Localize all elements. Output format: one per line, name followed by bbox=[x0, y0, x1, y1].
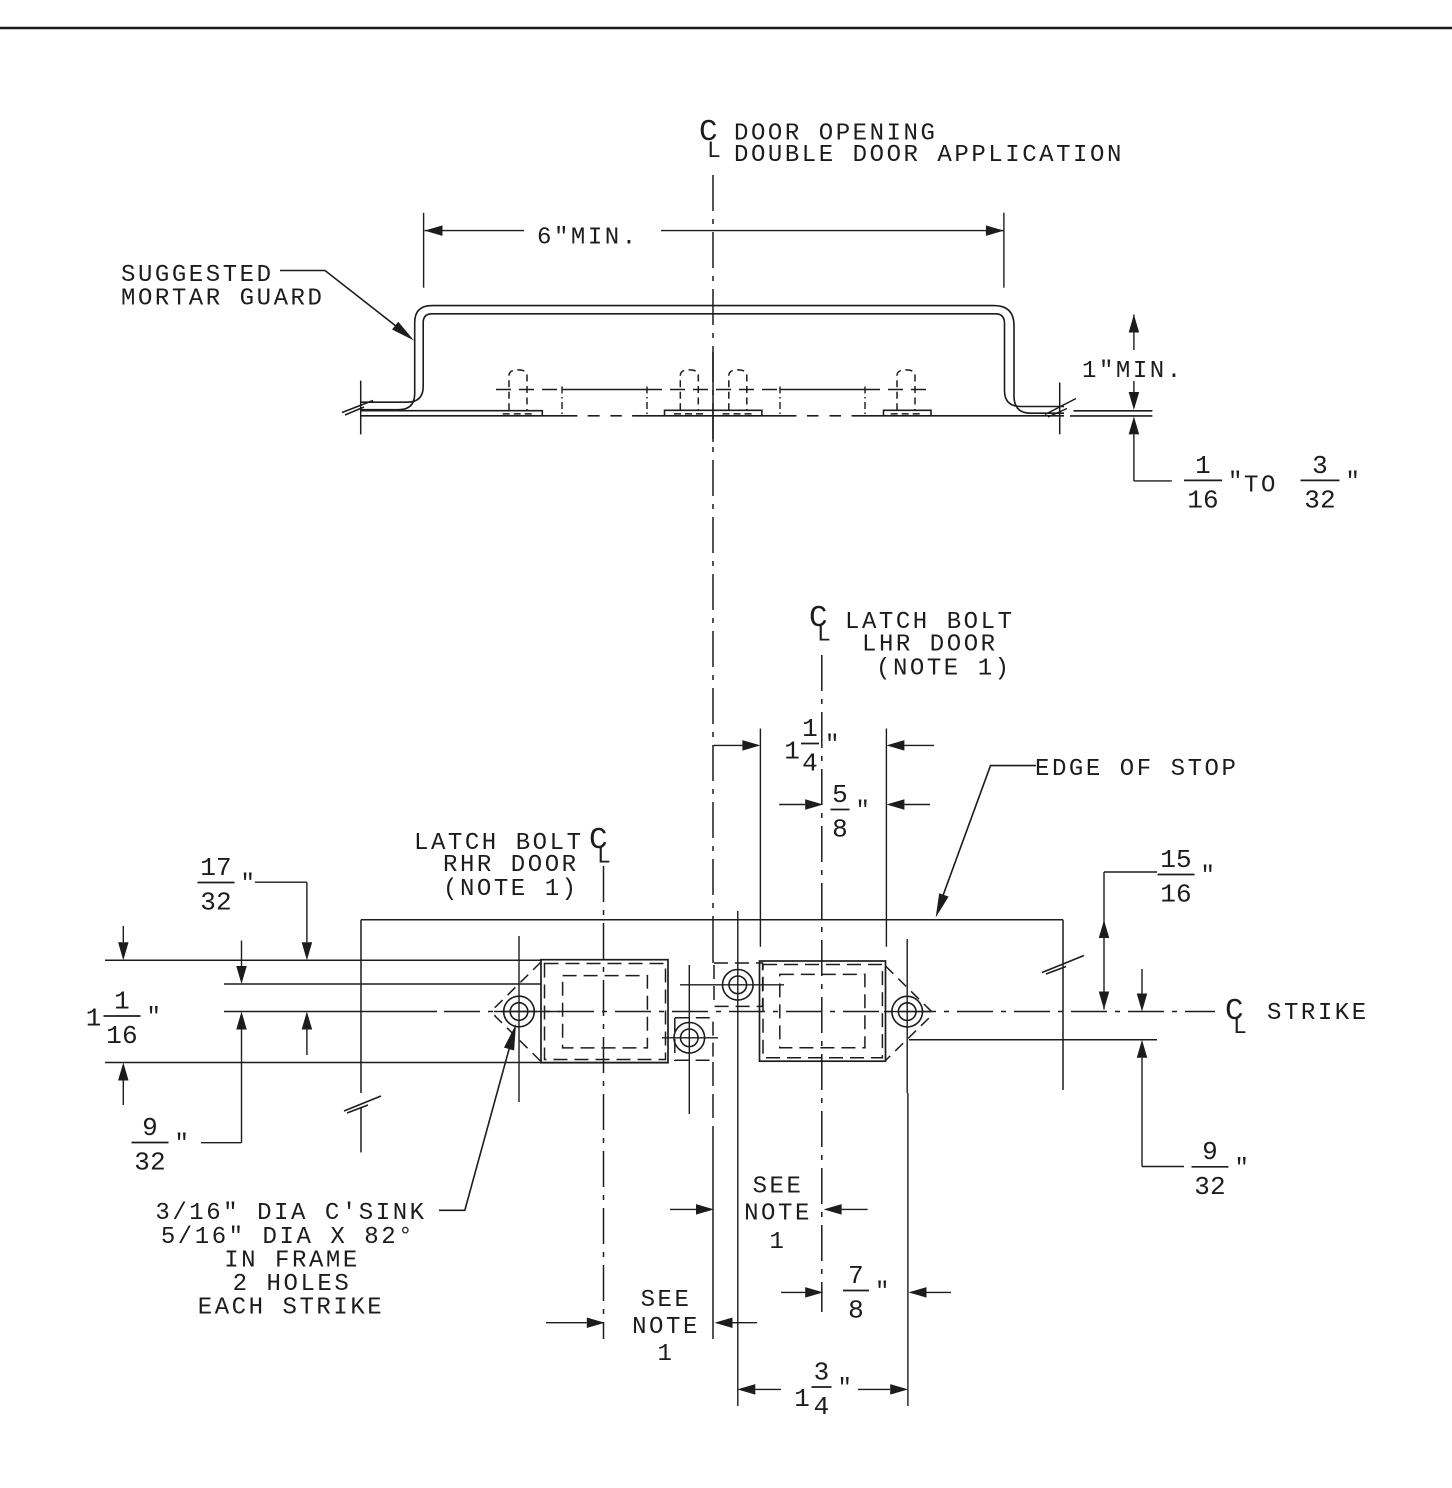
latch hole edge centerline mark 3 bbox=[779, 387, 781, 418]
svg-text:": " bbox=[175, 1131, 189, 1158]
screw hole lower-center (plan) with crosshair bbox=[662, 965, 718, 1114]
svg-text:32: 32 bbox=[200, 888, 232, 918]
svg-text:5: 5 bbox=[832, 780, 848, 810]
svg-text:": " bbox=[147, 1005, 161, 1032]
dimension 6 inch MIN line and arrows bbox=[425, 230, 525, 232]
door opening centerline (vertical dash-dot) bbox=[712, 175, 714, 920]
latch box LHR outer (solid) bbox=[760, 961, 886, 1061]
svg-text:4: 4 bbox=[814, 1392, 830, 1422]
svg-text:": " bbox=[875, 1279, 889, 1306]
dimension 1 inch MIN lower part bbox=[1133, 381, 1135, 392]
dimension 1-1/4 extension lines bbox=[759, 729, 761, 947]
frame right edge with break bbox=[1062, 920, 1064, 1090]
dimension 6 inch MIN extension line left bbox=[423, 213, 425, 288]
svg-text:(NOTE 1): (NOTE 1) bbox=[443, 876, 579, 903]
svg-text:SEE: SEE bbox=[641, 1287, 692, 1314]
drawing sheet border line bbox=[0, 27, 1452, 30]
svg-text:9: 9 bbox=[1202, 1137, 1218, 1167]
svg-text:4: 4 bbox=[802, 749, 818, 779]
screw hole left (plan) with crosshair bbox=[494, 936, 560, 1102]
svg-text:8: 8 bbox=[848, 1296, 864, 1326]
svg-text:3/16" DIA C'SINK: 3/16" DIA C'SINK bbox=[155, 1200, 426, 1227]
strike lip chamfer (dashed) around left screw bbox=[495, 962, 541, 1062]
dimension SEE NOTE 1 (RHR latch CL to door CL) arrows bbox=[546, 1322, 587, 1324]
mortar guard outer profile bbox=[361, 306, 1064, 414]
svg-text:16: 16 bbox=[106, 1021, 138, 1051]
latch bolt LHR centerline (vertical) bbox=[821, 655, 823, 1312]
svg-text:NOTE: NOTE bbox=[632, 1314, 700, 1341]
strike plate top edge visible through hole (right) bbox=[780, 389, 865, 391]
dimension 1-3/4 line and arrows bbox=[737, 1384, 755, 1395]
svg-text:17: 17 bbox=[200, 853, 232, 883]
latch hole edge centerline mark 1 bbox=[561, 387, 563, 418]
latch bolt RHR centerline (vertical) bbox=[603, 866, 605, 1339]
break line left (section) bbox=[360, 381, 362, 435]
svg-text:LHR DOOR: LHR DOOR bbox=[862, 632, 998, 659]
svg-text:EDGE OF STOP: EDGE OF STOP bbox=[1035, 756, 1238, 783]
strike boss under center screws (section) bbox=[665, 410, 762, 416]
edge of stop line bbox=[361, 919, 1063, 921]
leader to edge of stop bbox=[941, 766, 1036, 901]
svg-text:1: 1 bbox=[114, 986, 130, 1016]
svg-text:": " bbox=[856, 798, 870, 825]
svg-text:": " bbox=[825, 732, 839, 759]
svg-text:STRIKE: STRIKE bbox=[1267, 1000, 1369, 1027]
screw hole upper-center (plan) with crosshair bbox=[680, 911, 784, 1114]
svg-text:NOTE: NOTE bbox=[744, 1201, 812, 1228]
svg-text:": " bbox=[1201, 863, 1215, 890]
svg-text:32: 32 bbox=[1304, 486, 1336, 516]
svg-text:3: 3 bbox=[1312, 451, 1328, 481]
svg-text:L: L bbox=[707, 138, 721, 164]
svg-text:3: 3 bbox=[814, 1357, 830, 1387]
dimension 5/8 arrows bbox=[779, 804, 805, 806]
break line right (section) bbox=[1059, 383, 1061, 435]
svg-text:": " bbox=[1235, 1155, 1249, 1182]
strike lip bend line upper-left bbox=[224, 983, 541, 985]
strike boss under right screw (section) bbox=[884, 410, 932, 416]
dimension 15/16 line and arrows bbox=[1103, 920, 1105, 1010]
dimension 17/32 leader and arrows bbox=[255, 881, 307, 883]
dimension 1-1/16 line and arrows bbox=[122, 926, 124, 942]
screw (section) far left, hidden bbox=[503, 370, 534, 414]
strike lip chamfer (dashed) around right screw bbox=[886, 966, 932, 1061]
latch box LHR inner (dashed) bbox=[780, 974, 865, 1047]
strike plate top edge hidden seg2 bbox=[647, 389, 780, 391]
svg-text:": " bbox=[1346, 469, 1360, 496]
svg-text:L: L bbox=[597, 844, 611, 870]
dimension 7/8 arrows bbox=[781, 1291, 805, 1293]
svg-text:1: 1 bbox=[86, 1003, 102, 1033]
svg-text:(NOTE 1): (NOTE 1) bbox=[876, 656, 1012, 683]
frame left edge with break bbox=[360, 920, 362, 1093]
latch box RHR mid (dashed) bbox=[545, 964, 666, 1060]
dimension 1-1/4 arrows bbox=[713, 744, 742, 746]
strike lip bend line lower-right bbox=[909, 1039, 1157, 1041]
dimension SEE NOTE 1 (door CL to LHR latch CL) arrows bbox=[670, 1208, 696, 1210]
svg-text:TO: TO bbox=[1244, 473, 1278, 500]
svg-text:6"MIN.: 6"MIN. bbox=[537, 225, 639, 252]
svg-text:RHR DOOR: RHR DOOR bbox=[443, 852, 579, 879]
svg-text:16: 16 bbox=[1187, 486, 1219, 516]
svg-text:16: 16 bbox=[1160, 880, 1192, 910]
svg-text:1: 1 bbox=[658, 1341, 675, 1368]
svg-text:7: 7 bbox=[848, 1261, 864, 1291]
dimension 15/16 leader bbox=[1103, 872, 1105, 920]
svg-text:32: 32 bbox=[1194, 1172, 1226, 1202]
latch box RHR outer (solid) bbox=[541, 960, 668, 1063]
strike bottom edge bbox=[105, 1062, 668, 1064]
latch box RHR inner (dashed) bbox=[563, 976, 648, 1048]
extension line right screw (vertical) bbox=[907, 1093, 909, 1406]
strike plate top edge (section) left run bbox=[361, 411, 542, 416]
svg-text:SEE: SEE bbox=[753, 1173, 804, 1200]
latch hole edge centerline mark 4 bbox=[864, 387, 866, 418]
screw (section) center-left, hidden bbox=[674, 370, 705, 414]
strike top edge (line) bbox=[105, 959, 541, 961]
leader from countersink note to left screw bbox=[439, 1042, 511, 1210]
svg-text:1: 1 bbox=[802, 714, 818, 744]
svg-text:": " bbox=[241, 871, 255, 898]
dimension 6 inch MIN extension line right bbox=[1003, 213, 1005, 288]
dimension 9/32-right line and arrows bbox=[1141, 969, 1143, 994]
svg-text:1"MIN.: 1"MIN. bbox=[1082, 358, 1184, 385]
latch hole edge centerline mark 2 bbox=[646, 387, 648, 418]
dimension 1 inch MIN upper part bbox=[1133, 315, 1135, 351]
svg-text:1: 1 bbox=[794, 1384, 810, 1414]
svg-text:9: 9 bbox=[142, 1113, 158, 1143]
strike centerline solid extension bbox=[224, 1011, 437, 1013]
strike plate top edge hidden seg bbox=[496, 389, 562, 391]
dimension 9/32-left line and arrows bbox=[241, 941, 243, 967]
svg-text:1: 1 bbox=[1195, 451, 1211, 481]
svg-text:": " bbox=[1228, 469, 1242, 496]
svg-text:EACH STRIKE: EACH STRIKE bbox=[198, 1295, 384, 1322]
extension line upper-center screw (vertical) bbox=[737, 1114, 739, 1406]
svg-text:1: 1 bbox=[770, 1229, 787, 1256]
strike plate bottom edge (section) bbox=[361, 415, 577, 417]
keeper box (dashed) around lower center screw bbox=[675, 1018, 713, 1060]
svg-text:DOUBLE DOOR APPLICATION: DOUBLE DOOR APPLICATION bbox=[734, 142, 1124, 169]
svg-text:1: 1 bbox=[784, 737, 800, 767]
svg-text:MORTAR GUARD: MORTAR GUARD bbox=[121, 286, 324, 313]
latch box LHR mid (dashed) bbox=[763, 965, 882, 1058]
screw (section) far right, hidden bbox=[891, 370, 922, 414]
svg-text:8: 8 bbox=[832, 815, 848, 845]
svg-text:32: 32 bbox=[134, 1148, 166, 1178]
strike plate top edge hidden seg3 bbox=[865, 389, 931, 391]
svg-text:15: 15 bbox=[1160, 845, 1192, 875]
svg-text:L: L bbox=[817, 622, 831, 648]
dimension 1/16 to 3/32 arrow bbox=[1129, 416, 1140, 434]
strike plate top edge visible through hole (left) bbox=[562, 389, 647, 391]
svg-text:L: L bbox=[1233, 1014, 1247, 1040]
screw hole right (plan) with crosshair bbox=[884, 939, 932, 1093]
frame face lines beyond break (right) bbox=[1074, 410, 1153, 412]
leader to mortar guard bbox=[280, 271, 401, 331]
keeper box (dashed) around upper center screw bbox=[714, 963, 763, 1006]
screw (section) center-right, hidden bbox=[723, 370, 754, 414]
strike centerline dash-dot bbox=[444, 1011, 1215, 1013]
mortar guard inner profile bbox=[361, 314, 1064, 407]
svg-text:": " bbox=[838, 1376, 852, 1403]
